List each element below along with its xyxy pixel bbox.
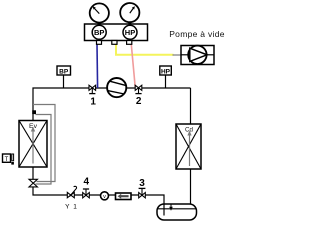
wire pump inlet stub (173, 54, 182, 56)
gauge tap box BP (57, 66, 71, 88)
hose blue BP (96, 45, 99, 89)
wire equalizer line (gray) TEV to suction (33, 105, 55, 182)
valve 3 (139, 188, 146, 198)
svg-text:1: 1 (90, 97, 96, 108)
svg-text:BP: BP (59, 69, 69, 76)
hose yellow to vacuum pump (116, 45, 174, 55)
evaporator Ev (19, 121, 47, 168)
port tab left (97, 41, 102, 45)
hose red HP (131, 45, 135, 88)
manifold body (85, 24, 148, 41)
thermostat T box (3, 154, 14, 165)
wire condenser to receiver (190, 169, 192, 205)
filter drier (116, 193, 132, 200)
node sensor bulb on suction line (32, 110, 36, 114)
wire evaporator inlet from TEV (32, 167, 34, 180)
sight glass (101, 192, 109, 200)
wire bulb capillary (gray) (36, 115, 52, 185)
svg-text:4: 4 (84, 177, 90, 188)
svg-text:Y 1: Y 1 (65, 204, 78, 211)
svg-text:BP: BP (94, 28, 104, 37)
svg-text:HP: HP (125, 28, 135, 37)
svg-text:v: v (103, 194, 106, 200)
receiver tank (157, 204, 197, 220)
svg-text:Cd: Cd (185, 126, 193, 133)
port tab right (127, 41, 132, 45)
gauge BP dial (90, 3, 109, 24)
valve 2 (135, 85, 142, 93)
gauge HP dial (120, 3, 139, 25)
vacuum pump U1 (181, 46, 214, 65)
gauge tap box HP (160, 66, 172, 88)
wire discharge down to condenser (190, 88, 192, 124)
compressor (107, 78, 126, 97)
valve 1 (89, 85, 96, 93)
port tab center (112, 41, 117, 45)
svg-text:Ev: Ev (29, 123, 38, 130)
svg-text:2: 2 (136, 96, 142, 107)
svg-text:T: T (5, 157, 9, 163)
label BP on manifold (92, 25, 106, 39)
valve 4 (83, 189, 90, 198)
svg-text:HP: HP (161, 69, 171, 76)
expansion valve TEV (29, 179, 37, 187)
svg-text:Pompe à vide: Pompe à vide (169, 29, 225, 39)
condenser Cd (176, 124, 201, 169)
wire suction line: evaporator top to valve 1 (33, 88, 191, 121)
solenoid valve Y1 (67, 186, 76, 197)
svg-text:3: 3 (139, 178, 145, 189)
label HP on manifold (123, 25, 137, 39)
wire liquid line bottom chain (33, 187, 164, 216)
